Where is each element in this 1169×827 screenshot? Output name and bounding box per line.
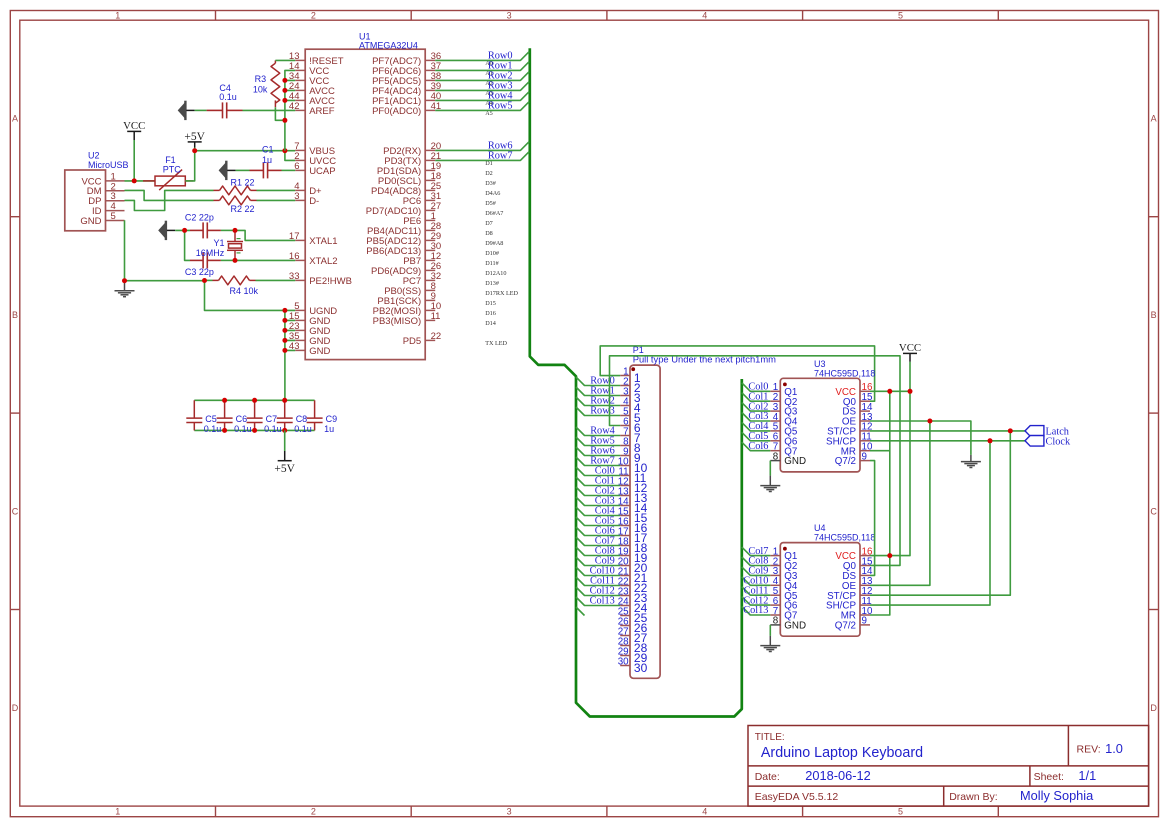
U2 pin 5 GND <box>106 220 125 222</box>
U4 pin 1 Q1 <box>770 555 780 557</box>
U1 pin 37 PF6(ADC6) <box>425 69 435 71</box>
P1 pin 10 <box>620 465 630 467</box>
wire net Row2 bus to P1 pin 4 <box>576 397 620 406</box>
wire net Col9 bus to P1 pin 20 <box>576 557 620 566</box>
P1 pin 26 <box>620 625 630 627</box>
svg-text:B: B <box>1151 310 1157 320</box>
ground (earth) under U2 <box>124 281 126 291</box>
U3 pin 4 Q4 <box>770 420 780 422</box>
U3 pin 9 Q7/2 <box>860 460 870 462</box>
U1 pin 14 VCC <box>295 69 305 71</box>
U1 pin 18 PD0(SCL) <box>425 179 435 181</box>
P1 pin 29 <box>620 655 630 657</box>
U3 pin 6 Q6 <box>770 440 780 442</box>
wire net Col12 bus to P1 pin 23 <box>576 587 620 596</box>
svg-text:C9: C9 <box>326 414 338 424</box>
U1 pin 6 UCAP <box>295 169 305 171</box>
U1 pin 42 AREF <box>295 109 305 111</box>
wire F1 to +5V rail <box>185 148 194 181</box>
wire U3 Q7/2 to U4 DS <box>870 461 875 576</box>
svg-text:D10#: D10# <box>485 250 499 257</box>
wire U3 MR to VCC row <box>870 391 890 615</box>
svg-text:EasyEDA V5.5.12: EasyEDA V5.5.12 <box>755 791 839 803</box>
U4 pin 16 VCC <box>860 555 870 557</box>
svg-text:C7: C7 <box>266 414 278 424</box>
wire decoupling rails <box>194 400 314 430</box>
wire SH/CP to Clock <box>870 441 1025 605</box>
svg-text:9: 9 <box>862 616 867 627</box>
wire net Col1 bus to U3 Q2 <box>742 393 771 402</box>
U1 pin 10 PB2(MOSI) <box>425 309 435 311</box>
svg-text:C3 22p: C3 22p <box>185 267 214 277</box>
svg-text:B: B <box>12 310 18 320</box>
wire net Row1 from U1 to bus <box>435 62 529 71</box>
svg-text:U3: U3 <box>814 359 826 369</box>
wire net Col6 bus to P1 pin 17 <box>576 527 620 536</box>
capacitor C8 <box>284 400 286 418</box>
svg-text:Arduino Laptop Keyboard: Arduino Laptop Keyboard <box>761 745 923 761</box>
P1 pin 9 <box>620 455 630 457</box>
U1 pin 20 PD2(RX) <box>425 149 435 151</box>
U1 pin 5 UGND <box>295 309 305 311</box>
svg-text:74HC595D,118: 74HC595D,118 <box>814 368 875 378</box>
svg-text:Molly Sophia: Molly Sophia <box>1020 788 1094 803</box>
IC U3 74HC595D <box>780 378 860 472</box>
U4 pin 4 Q4 <box>770 584 780 586</box>
ground (signal) at C4 <box>178 101 187 120</box>
svg-text:GND: GND <box>80 216 101 227</box>
svg-text:22: 22 <box>431 331 442 342</box>
U1 pin 34 VCC <box>295 79 305 81</box>
svg-text:PF0(ADC0): PF0(ADC0) <box>372 106 421 117</box>
P1 pin 1 <box>620 375 630 377</box>
P1 pin 18 <box>620 545 630 547</box>
wire net Col2 bus to U3 Q3 <box>742 403 771 412</box>
svg-text:D9#A8: D9#A8 <box>485 240 503 247</box>
wire XTAL2 <box>235 259 295 261</box>
svg-text:D6#A7: D6#A7 <box>485 210 503 217</box>
wire C4 to AREF <box>243 109 296 111</box>
U1 pin 23 GND <box>295 329 305 331</box>
resistor R3 <box>271 63 280 103</box>
svg-text:VCC: VCC <box>899 342 921 354</box>
wire net Row0 from U1 to bus <box>435 52 529 61</box>
wire net Row0 bus to P1 pin 2 <box>576 377 620 386</box>
svg-text:0.1u: 0.1u <box>204 424 222 434</box>
IC U4 74HC595D <box>780 543 860 637</box>
svg-text:D: D <box>1150 703 1157 713</box>
capacitor C1 <box>236 169 250 171</box>
svg-text:30: 30 <box>634 661 648 675</box>
power flag +5V (bottom) <box>284 430 286 451</box>
P1 pin1 marker <box>631 367 635 371</box>
resistor R1 <box>214 189 220 191</box>
junction dots gnd rail <box>122 278 127 283</box>
svg-text:Col13: Col13 <box>743 605 768 616</box>
svg-text:C: C <box>1150 507 1157 517</box>
wire net Col0 bus to P1 pin 11 <box>576 467 620 476</box>
svg-text:R2 22: R2 22 <box>231 204 255 214</box>
U1 pin 13 !RESET <box>295 59 305 61</box>
svg-text:PB3(MISO): PB3(MISO) <box>373 316 422 327</box>
U1 pin 17 XTAL1 <box>295 239 305 241</box>
svg-text:C1: C1 <box>262 145 274 155</box>
U1 pin 12 PB7 <box>425 259 435 261</box>
P1 pin 25 <box>620 615 630 617</box>
U4 pin 9 Q7/2 <box>860 624 870 626</box>
svg-text:D: D <box>12 703 19 713</box>
wire net Col9 bus to U4 Q3 <box>742 567 771 576</box>
wire +5V rail to VBUS/UVCC <box>195 151 296 161</box>
U1 pin 1 PE6 <box>425 219 435 221</box>
svg-text:16MHz: 16MHz <box>196 248 225 258</box>
svg-text:0.1u: 0.1u <box>294 424 312 434</box>
U1 pin 43 GND <box>295 349 305 351</box>
U4 pin 7 Q7 <box>770 614 780 616</box>
P1 pin 12 <box>620 485 630 487</box>
P1 pin 4 <box>620 405 630 407</box>
svg-text:1.0: 1.0 <box>1105 741 1123 756</box>
U1 pin 41 PF0(ADC0) <box>425 109 435 111</box>
wire net Row6 from U1 to bus <box>435 142 529 151</box>
ground (earth) at OE <box>970 455 972 461</box>
svg-text:D17RX LED: D17RX LED <box>485 290 518 297</box>
wire net Col4 bus to U3 Q5 <box>742 422 771 431</box>
junction dots U1 GND pins <box>282 308 287 313</box>
svg-text:30: 30 <box>618 657 629 668</box>
U1 pin 15 GND <box>295 319 305 321</box>
U1 pin 33 PE2!HWB <box>295 279 305 281</box>
svg-text:D-: D- <box>309 196 319 207</box>
U3 pin 13 OE <box>860 420 870 422</box>
U3 pin 7 Q7 <box>770 450 780 452</box>
svg-text:D12A10: D12A10 <box>485 270 506 277</box>
svg-text:U4: U4 <box>814 523 826 533</box>
svg-text:D2: D2 <box>485 170 493 177</box>
wire net Col11 bus to U4 Q5 <box>742 587 771 596</box>
capacitor C5 <box>193 400 195 418</box>
P1 pin 20 <box>620 565 630 567</box>
svg-text:Q7/2: Q7/2 <box>835 456 856 467</box>
P1 pin 5 <box>620 415 630 417</box>
svg-text:1u: 1u <box>262 155 272 165</box>
svg-text:C: C <box>12 507 19 517</box>
svg-text:R4 10k: R4 10k <box>230 286 259 296</box>
svg-text:3: 3 <box>507 11 512 21</box>
wire ST/CP to Latch <box>870 431 1025 595</box>
U1 pin 8 PB0(SS) <box>425 289 435 291</box>
ground (signal) at crystal <box>158 221 167 240</box>
svg-text:1u: 1u <box>324 424 334 434</box>
U2 pin 4 ID <box>106 210 125 212</box>
U4 pin 10 MR <box>860 614 870 616</box>
U4 pin 6 Q6 <box>770 604 780 606</box>
U1 pin 44 AVCC <box>295 99 305 101</box>
wire net Row1 bus to P1 pin 3 <box>576 387 620 396</box>
U1 pin 21 PD3(TX) <box>425 159 435 161</box>
wire U3 GND to ground <box>769 461 771 476</box>
svg-text:Y1: Y1 <box>214 238 225 248</box>
svg-text:D3#: D3# <box>485 180 496 187</box>
P1 pin 21 <box>620 575 630 577</box>
U2 pin 1 VCC <box>106 180 125 182</box>
wire U1 GND pins column <box>285 310 295 400</box>
svg-text:MicroUSB: MicroUSB <box>88 160 129 170</box>
wire net Row3 from U1 to bus <box>435 82 529 91</box>
P1 pin 24 <box>620 605 630 607</box>
wire net Col7 bus to P1 pin 18 <box>576 537 620 546</box>
svg-text:1: 1 <box>115 807 120 817</box>
svg-text:5: 5 <box>111 211 116 222</box>
svg-text:0.1u: 0.1u <box>219 92 237 102</box>
ground (signal) at C1 <box>219 161 228 180</box>
P1 pin 8 <box>620 445 630 447</box>
svg-text:AREF: AREF <box>309 106 335 117</box>
svg-text:TITLE:: TITLE: <box>755 732 785 743</box>
P1 pin 3 <box>620 395 630 397</box>
wire net Col8 bus to U4 Q2 <box>742 557 771 566</box>
U3 pin 10 MR <box>860 450 870 452</box>
svg-text:XTAL1: XTAL1 <box>309 236 337 247</box>
U1 pin 3 D- <box>295 199 305 201</box>
P1 pin 2 <box>620 385 630 387</box>
svg-text:U2: U2 <box>88 150 100 160</box>
U3 pin 12 ST/CP <box>860 430 870 432</box>
IC U1 ATMEGA32U4 <box>305 49 425 359</box>
U1 pin 40 PF1(ADC1) <box>425 99 435 101</box>
svg-text:11: 11 <box>431 311 441 322</box>
svg-text:D15: D15 <box>485 300 496 307</box>
U3 pin 8 GND <box>770 460 780 462</box>
svg-text:5: 5 <box>898 807 903 817</box>
P1 pin 23 <box>620 595 630 597</box>
svg-text:XTAL2: XTAL2 <box>309 256 337 267</box>
wire P1 pin6 to U4 Q0 <box>610 356 901 566</box>
U1 pin 28 PB4(ADC11) <box>425 229 435 231</box>
port Latch <box>1025 426 1044 437</box>
svg-text:Clock: Clock <box>1046 436 1071 447</box>
svg-text:PTC: PTC <box>163 164 182 174</box>
P1 pin 6 <box>620 425 630 427</box>
P1 pin 17 <box>620 535 630 537</box>
junction dots VCC column <box>282 78 287 83</box>
svg-text:R1 22: R1 22 <box>231 178 255 188</box>
wire net Col10 bus to P1 pin 21 <box>576 567 620 576</box>
junction dots decoupling rails <box>222 398 227 403</box>
capacitor C3 <box>190 259 203 261</box>
svg-text:C2 22p: C2 22p <box>185 212 214 222</box>
P1 pin 14 <box>620 505 630 507</box>
svg-text:D16: D16 <box>485 310 496 317</box>
U4 pin1 marker <box>783 547 787 551</box>
U4 pin 14 DS <box>860 574 870 576</box>
svg-text:4: 4 <box>702 11 707 21</box>
U4 pin 8 GND <box>770 624 780 626</box>
U1 pin 22 PD5 <box>425 339 435 341</box>
resistor R2 <box>214 199 220 201</box>
svg-text:VCC: VCC <box>123 120 145 132</box>
svg-text:D14: D14 <box>485 320 496 327</box>
svg-text:1/1: 1/1 <box>1078 768 1096 783</box>
svg-text:PE2!HWB: PE2!HWB <box>309 276 352 287</box>
capacitor C2 <box>190 229 203 231</box>
svg-text:2: 2 <box>311 807 316 817</box>
wire U2 DP to R1 (D+) <box>125 190 214 210</box>
wire net Row4 from U1 to bus <box>435 92 529 101</box>
title block <box>748 726 1149 807</box>
wire net Row6 bus to P1 pin 9 <box>576 447 620 456</box>
wire net Col0 bus to U3 Q1 <box>742 383 771 392</box>
U1 pin 25 PD4(ADC8) <box>425 189 435 191</box>
wire net Col12 bus to U4 Q6 <box>742 597 771 606</box>
svg-text:PD5: PD5 <box>403 336 421 347</box>
svg-text:0.1u: 0.1u <box>234 424 252 434</box>
ground (earth) under U4 <box>760 645 780 647</box>
svg-text:UCAP: UCAP <box>309 166 335 177</box>
wire net Row5 bus to P1 pin 8 <box>576 437 620 446</box>
svg-text:Drawn By:: Drawn By: <box>949 791 997 803</box>
svg-text:8: 8 <box>773 451 779 462</box>
U3 pin 15 Q0 <box>860 400 870 402</box>
svg-text:A: A <box>1151 114 1157 124</box>
P1 pin 19 <box>620 555 630 557</box>
svg-text:9: 9 <box>862 451 867 462</box>
P1 pin 22 <box>620 585 630 587</box>
svg-text:Sheet:: Sheet: <box>1034 771 1064 783</box>
U2 pin 2 DM <box>106 190 125 192</box>
connector U2 MicroUSB <box>65 170 106 231</box>
wire net Col5 bus to U3 Q6 <box>742 432 771 441</box>
wire net Row7 from U1 to bus <box>435 152 529 161</box>
wire P1 pin1 to U3 Q0 <box>600 346 874 401</box>
U1 pin 29 PB5(ADC12) <box>425 239 435 241</box>
U4 pin 11 SH/CP <box>860 604 870 606</box>
U1 pin 9 PB1(SCK) <box>425 299 435 301</box>
capacitor C4 <box>195 109 207 111</box>
U1 pin 30 PB6(ADC13) <box>425 249 435 251</box>
U4 pin 13 OE <box>860 584 870 586</box>
U3 pin1 marker <box>783 383 787 387</box>
U1 pin 27 PD7(ADC10) <box>425 209 435 211</box>
wire VCC column to U1 power pins <box>285 70 295 150</box>
U3 pin 14 DS <box>860 410 870 412</box>
U1 pin 32 PC7 <box>425 279 435 281</box>
svg-text:D4A6: D4A6 <box>485 190 500 197</box>
svg-text:GND: GND <box>784 621 806 632</box>
wire net Col2 bus to P1 pin 13 <box>576 487 620 496</box>
svg-text:A: A <box>12 114 18 124</box>
svg-text:D8: D8 <box>485 230 493 237</box>
svg-text:ATMEGA32U4: ATMEGA32U4 <box>359 41 418 51</box>
U1 pin 7 VBUS <box>295 149 305 151</box>
P1 pin 28 <box>620 645 630 647</box>
U1 pin 26 PD6(ADC9) <box>425 269 435 271</box>
wire net Col3 bus to U3 Q4 <box>742 413 771 422</box>
U1 pin 35 GND <box>295 339 305 341</box>
svg-text:8: 8 <box>773 616 779 627</box>
ground (earth) under U3 <box>760 485 780 487</box>
svg-text:GND: GND <box>309 346 330 357</box>
svg-text:TX LED: TX LED <box>485 340 507 347</box>
U1 pin 36 PF7(ADC7) <box>425 59 435 61</box>
svg-text:C6: C6 <box>236 414 248 424</box>
svg-text:2018-06-12: 2018-06-12 <box>805 768 870 783</box>
wire R3 top to pin13 <box>275 59 295 61</box>
svg-text:F1: F1 <box>165 155 176 165</box>
svg-text:D13#: D13# <box>485 280 499 287</box>
junction dots U3/U4 nets <box>887 389 892 394</box>
U1 pin 19 PD1(SDA) <box>425 169 435 171</box>
junction dots crystal <box>182 228 187 233</box>
wire U2 DM to R2 (D-) <box>125 190 214 200</box>
svg-text:R3: R3 <box>255 74 267 84</box>
svg-text:74HC595D,118: 74HC595D,118 <box>814 533 875 543</box>
svg-text:D5#: D5# <box>485 200 496 207</box>
U1 pin 39 PF4(ADC4) <box>425 89 435 91</box>
svg-text:0.1u: 0.1u <box>264 424 282 434</box>
svg-text:REV:: REV: <box>1077 743 1101 755</box>
U4 pin 12 ST/CP <box>860 594 870 596</box>
wire net Col11 bus to P1 pin 22 <box>576 577 620 586</box>
wire R2 to D- <box>257 199 296 201</box>
U1 pin 16 XTAL2 <box>295 259 305 261</box>
wire net Col3 bus to P1 pin 14 <box>576 497 620 506</box>
wire net Row5 from U1 to bus <box>435 102 529 111</box>
wire U4 GND to ground <box>769 625 771 636</box>
svg-text:D11#: D11# <box>485 260 499 267</box>
U1 pin 31 PC6 <box>425 199 435 201</box>
capacitor C6 <box>224 400 226 418</box>
U3 pin 2 Q2 <box>770 400 780 402</box>
wire net Col7 bus to U4 Q1 <box>742 547 771 556</box>
wire net Col13 bus to P1 pin 24 <box>576 597 620 606</box>
P1 pin 13 <box>620 495 630 497</box>
U1 pin 24 AVCC <box>295 89 305 91</box>
wire VCC to U3/U4 pin16 <box>870 362 910 556</box>
U4 pin 5 Q5 <box>770 594 780 596</box>
U3 pin 11 SH/CP <box>860 440 870 442</box>
U1 pin 38 PF5(ADC5) <box>425 79 435 81</box>
wire net Col1 bus to P1 pin 12 <box>576 477 620 486</box>
P1 pin 7 <box>620 435 630 437</box>
capacitor C9 <box>314 400 316 418</box>
wire net Col13 bus to U4 Q7 <box>742 607 771 616</box>
svg-text:1: 1 <box>115 11 120 21</box>
wire net Col6 bus to U3 Q7 <box>742 442 771 451</box>
svg-text:10k: 10k <box>253 85 268 95</box>
junction dots power <box>132 178 137 183</box>
svg-text:Date:: Date: <box>755 771 780 783</box>
bus entry stub at P1 pin 25 <box>576 607 585 616</box>
svg-text:Q7/2: Q7/2 <box>835 621 856 632</box>
wire net Col8 bus to P1 pin 19 <box>576 547 620 556</box>
capacitor C7 <box>254 400 256 418</box>
U3 pin 5 Q5 <box>770 430 780 432</box>
wire XTAL1 <box>235 230 295 240</box>
svg-text:Col13: Col13 <box>590 596 615 607</box>
U1 pin 4 D+ <box>295 189 305 191</box>
P1 pin 27 <box>620 635 630 637</box>
wire U2 GND down and to ground rail <box>125 220 296 310</box>
svg-text:+5V: +5V <box>274 463 295 475</box>
wire net Row2 from U1 to bus <box>435 72 529 81</box>
wire U3 OE / U4 OE to ground <box>870 421 971 585</box>
svg-text:Row5: Row5 <box>488 101 513 112</box>
wire net Row3 bus to P1 pin 5 <box>576 407 620 416</box>
resistor R4 <box>205 279 213 281</box>
U1 pin 11 PB3(MISO) <box>425 319 435 321</box>
wire gnd to C2/C3 left column <box>175 230 190 260</box>
